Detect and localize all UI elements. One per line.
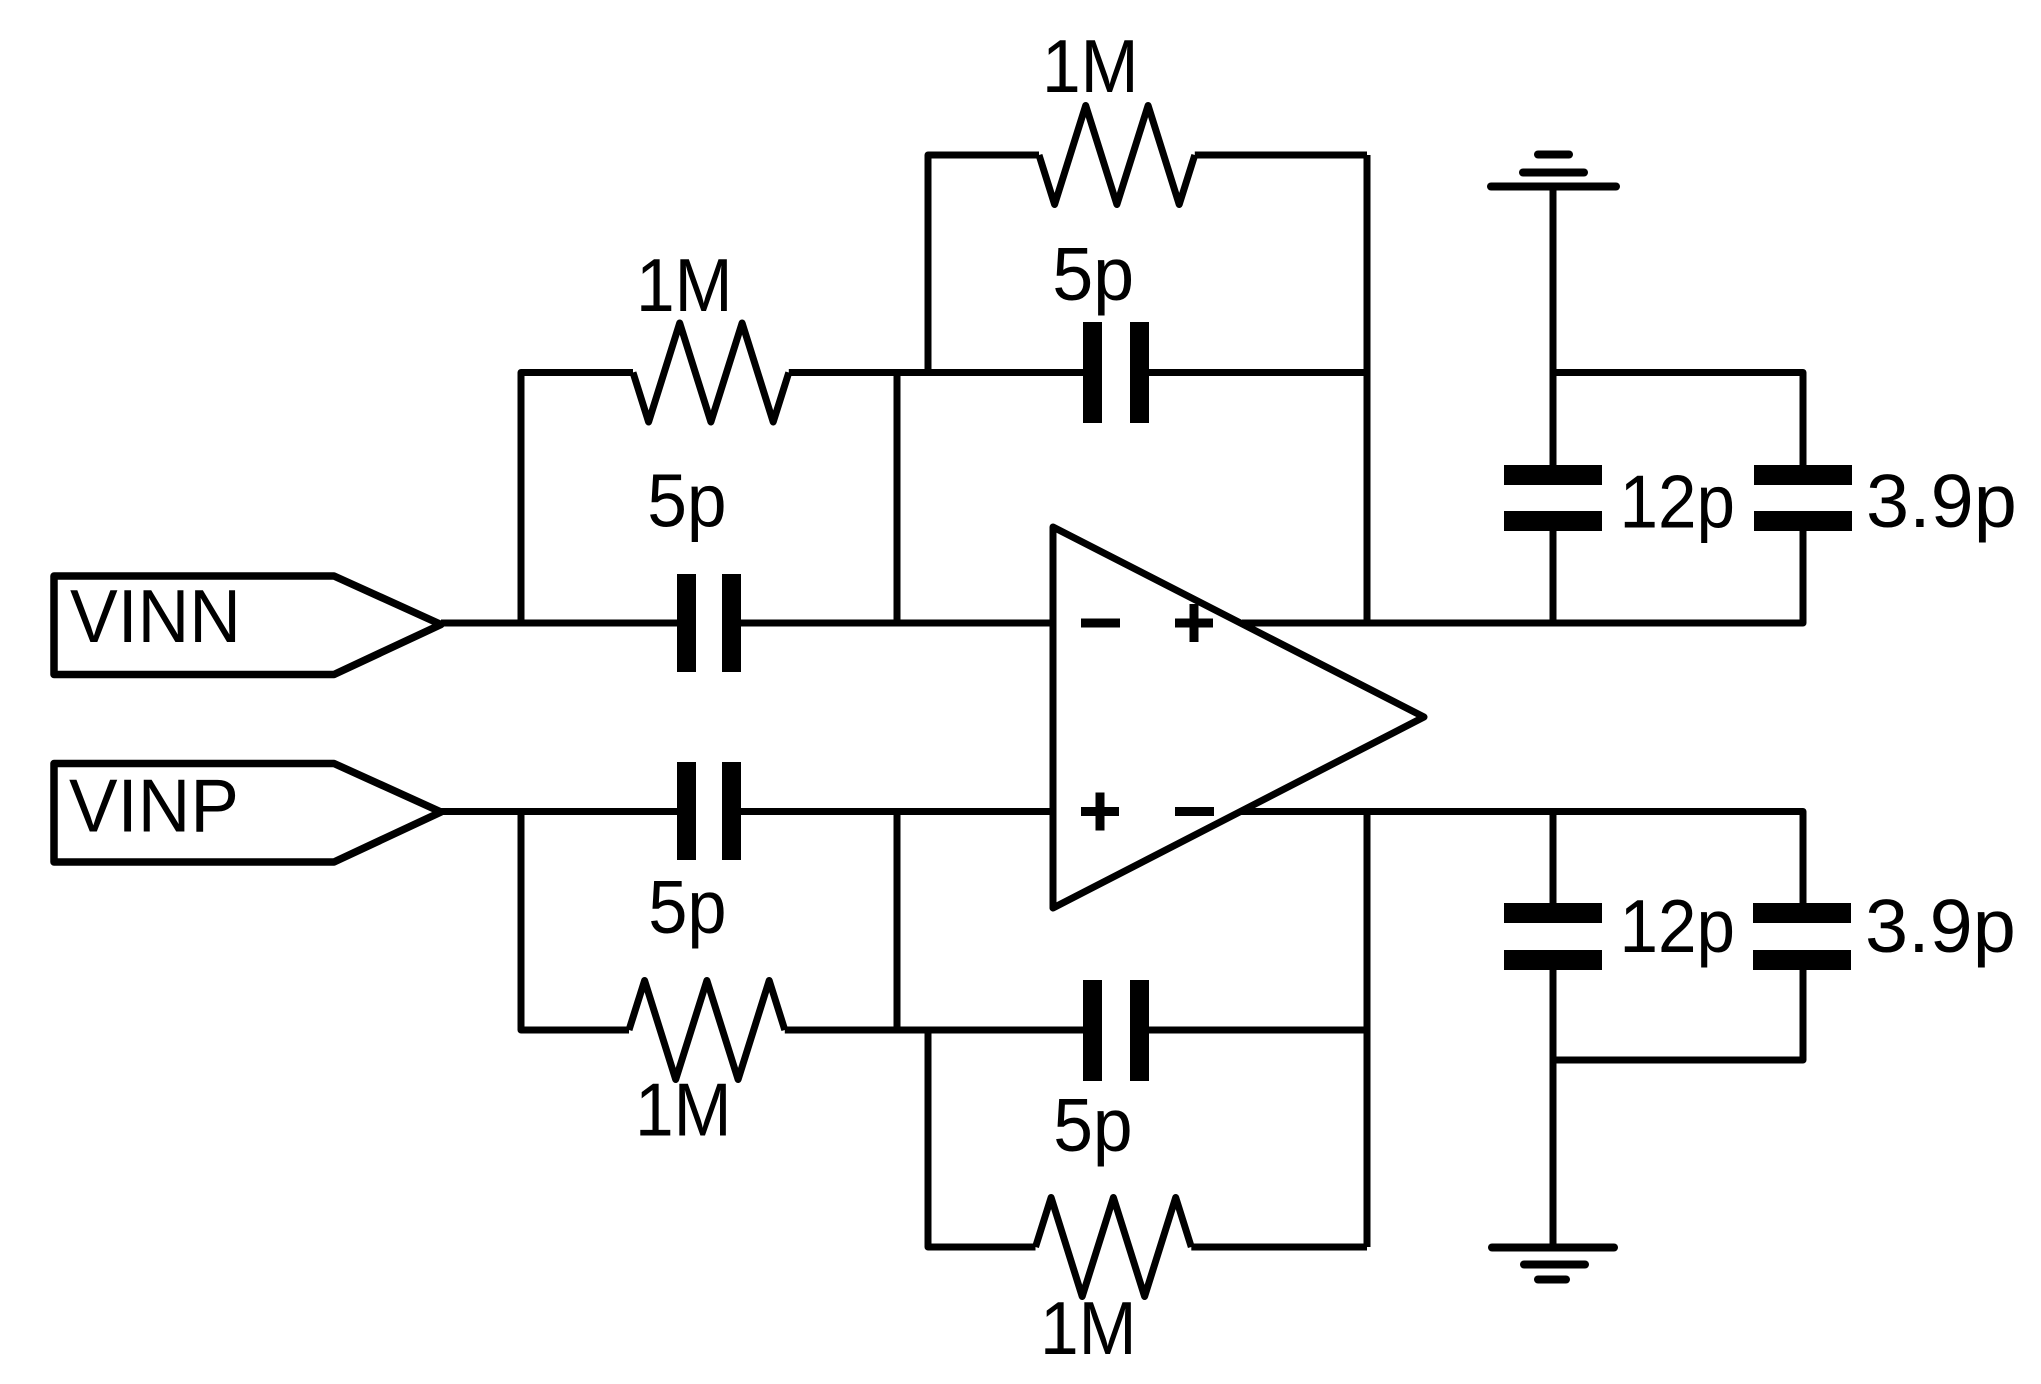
wire 12p top stem to output (1550, 531, 1557, 623)
wire R3 to output vertical (1191, 1244, 1367, 1251)
wire output vertical x=1367 (top) (1364, 155, 1371, 623)
op-amp U1 (1053, 527, 1424, 908)
resistor R1 1M (feedback, VINN side) (1039, 106, 1195, 205)
wire output vertical x=1367 (bottom) (1364, 812, 1371, 1248)
resistor R3 1M (feedback, VINP side) (1036, 1198, 1192, 1297)
capacitor C7 12p (bottom load) (1504, 903, 1602, 970)
svg-text:VINN: VINN (70, 574, 241, 658)
capacitor C5 12p (top load) (1504, 465, 1602, 531)
node A vertical x=521 (VINN side) (521, 373, 633, 624)
resistor R2 1M (input, VINN side) (633, 323, 789, 422)
svg-text:5p: 5p (647, 459, 726, 543)
capacitor C4 5p (feedback, VINP side) (1083, 980, 1149, 1081)
svg-text:3.9p: 3.9p (1865, 884, 2016, 968)
wire output top (VOUTN) (1242, 531, 1803, 623)
node B vertical x=521 (VINP side) (521, 812, 629, 1031)
svg-text:12p: 12p (1620, 884, 1736, 968)
svg-text:VINP: VINP (69, 764, 239, 848)
op-amp output sign + (top) (1175, 604, 1213, 642)
ground (top, inverted) stem (1550, 187, 1557, 465)
capacitor C6 3.9p (top load) (1754, 465, 1852, 531)
svg-text:5p: 5p (1052, 232, 1134, 316)
wire resistor R4 to feedback cap C4 (785, 1027, 1083, 1034)
wire output bottom (VOUTP) (1240, 812, 1803, 904)
capacitor C3 5p (input, VINP line) (677, 762, 741, 860)
wire VINP tip to input cap (441, 808, 679, 815)
op-amp inverting input sign - (1081, 619, 1120, 628)
ground (top) bars (1491, 155, 1616, 187)
wire vertical x=928 down to bottom feedback row (928, 1030, 1036, 1247)
svg-text:12p: 12p (1620, 460, 1736, 544)
svg-text:1M: 1M (636, 243, 733, 327)
wire branch to 3.9p (bottom) (1553, 969, 1803, 1060)
svg-text:1M: 1M (1042, 24, 1139, 108)
wire R1 to output vertical (1195, 152, 1367, 159)
capacitor C8 3.9p (bottom load) (1753, 903, 1851, 970)
wire branch to 3.9p (top) (1553, 373, 1803, 466)
resistor R4 1M (input, VINP side) (629, 981, 785, 1080)
ground (bottom) bars (1492, 1248, 1614, 1280)
svg-text:1M: 1M (1040, 1286, 1137, 1370)
wire junction vertical x=897 (top) (894, 373, 901, 624)
wire feedback cap C2 to output vertical x=1367 (1149, 369, 1367, 376)
op-amp output sign - (bottom) (1175, 807, 1214, 816)
capacitor C2 5p (feedback, VINN side) (1083, 322, 1149, 423)
svg-text:5p: 5p (648, 865, 726, 949)
wire input cap to op-amp inverting input (739, 620, 1053, 627)
svg-text:3.9p: 3.9p (1866, 459, 2017, 543)
wire input cap to op-amp non-inverting input (739, 808, 1053, 815)
port VINP (54, 764, 441, 863)
wire feedback cap C4 to output vertical x=1367 (1149, 1027, 1367, 1034)
capacitor C1 5p (input, VINN line) (677, 574, 741, 672)
op-amp non-inverting input sign + (1081, 793, 1119, 831)
wire resistor R2 to feedback cap C2 (789, 369, 1083, 376)
svg-text:1M: 1M (635, 1068, 732, 1152)
wire vertical x=928 up to top feedback row (928, 155, 1039, 373)
ground (bottom) stem (1550, 969, 1557, 1247)
wire junction vertical x=897 (bottom) (894, 812, 901, 1031)
port VINN (54, 576, 441, 675)
wire VINN tip to input cap (441, 620, 679, 627)
svg-text:5p: 5p (1053, 1083, 1132, 1167)
wire 12p bottom stem to output (1550, 812, 1557, 904)
